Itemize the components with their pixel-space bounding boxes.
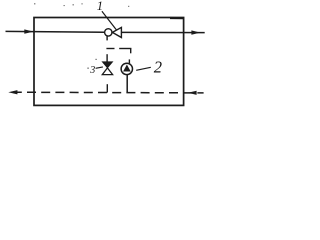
wire: dash below valve 3 down to return line <box>106 84 108 92</box>
svg-text:1: 1 <box>97 0 103 13</box>
pump 2: body circle <box>121 63 132 74</box>
enclosure box (machine boundary) <box>34 18 184 106</box>
arrow: inlet flow arrowhead at left edge of box <box>24 29 33 33</box>
leader line for label 2 <box>136 67 151 70</box>
wire: elbow down toward pump 2 (upper dash) <box>130 49 132 54</box>
svg-text:3: 3 <box>89 65 95 76</box>
wire: pump 2 suction stem down to return line <box>126 75 128 93</box>
wire: dashed vertical link from check valve 1 down to valve 3 <box>106 54 108 62</box>
wire: elbow down into pump 2 (lower dash) <box>128 59 130 63</box>
wire: dashed horizontal branch toward pump 2 (first dash, from node at x106) <box>106 48 114 50</box>
leader line for label 3 <box>96 67 103 68</box>
valve 3: upper filled triangle of bowtie symbol <box>102 62 112 68</box>
svg-text:2: 2 <box>154 58 162 77</box>
valve 3: lower open triangle of bowtie symbol <box>102 68 112 75</box>
wire: dashed horizontal branch toward pump 2 (second dash) <box>119 48 131 50</box>
wire: stem below check valve 1 <box>106 36 108 40</box>
arrow: outlet flow arrowhead at right end of supply line <box>191 30 200 34</box>
wire: top supply line, right segment from check valve 1 to outlet <box>121 31 205 33</box>
check valve 1: ball (circle) <box>105 29 112 36</box>
check valve 1: seat triangle <box>112 27 121 37</box>
wire: top supply line, left segment up to check valve 1 <box>6 30 105 33</box>
pump 2: filled direction triangle <box>123 65 131 72</box>
wire: dashed return line across the bottom <box>8 91 203 94</box>
arrow: return outlet arrowhead at far left of return line <box>8 90 17 94</box>
leader line for label 1 <box>102 11 116 30</box>
arrow: return inlet arrowhead just right of box edge <box>188 91 197 95</box>
